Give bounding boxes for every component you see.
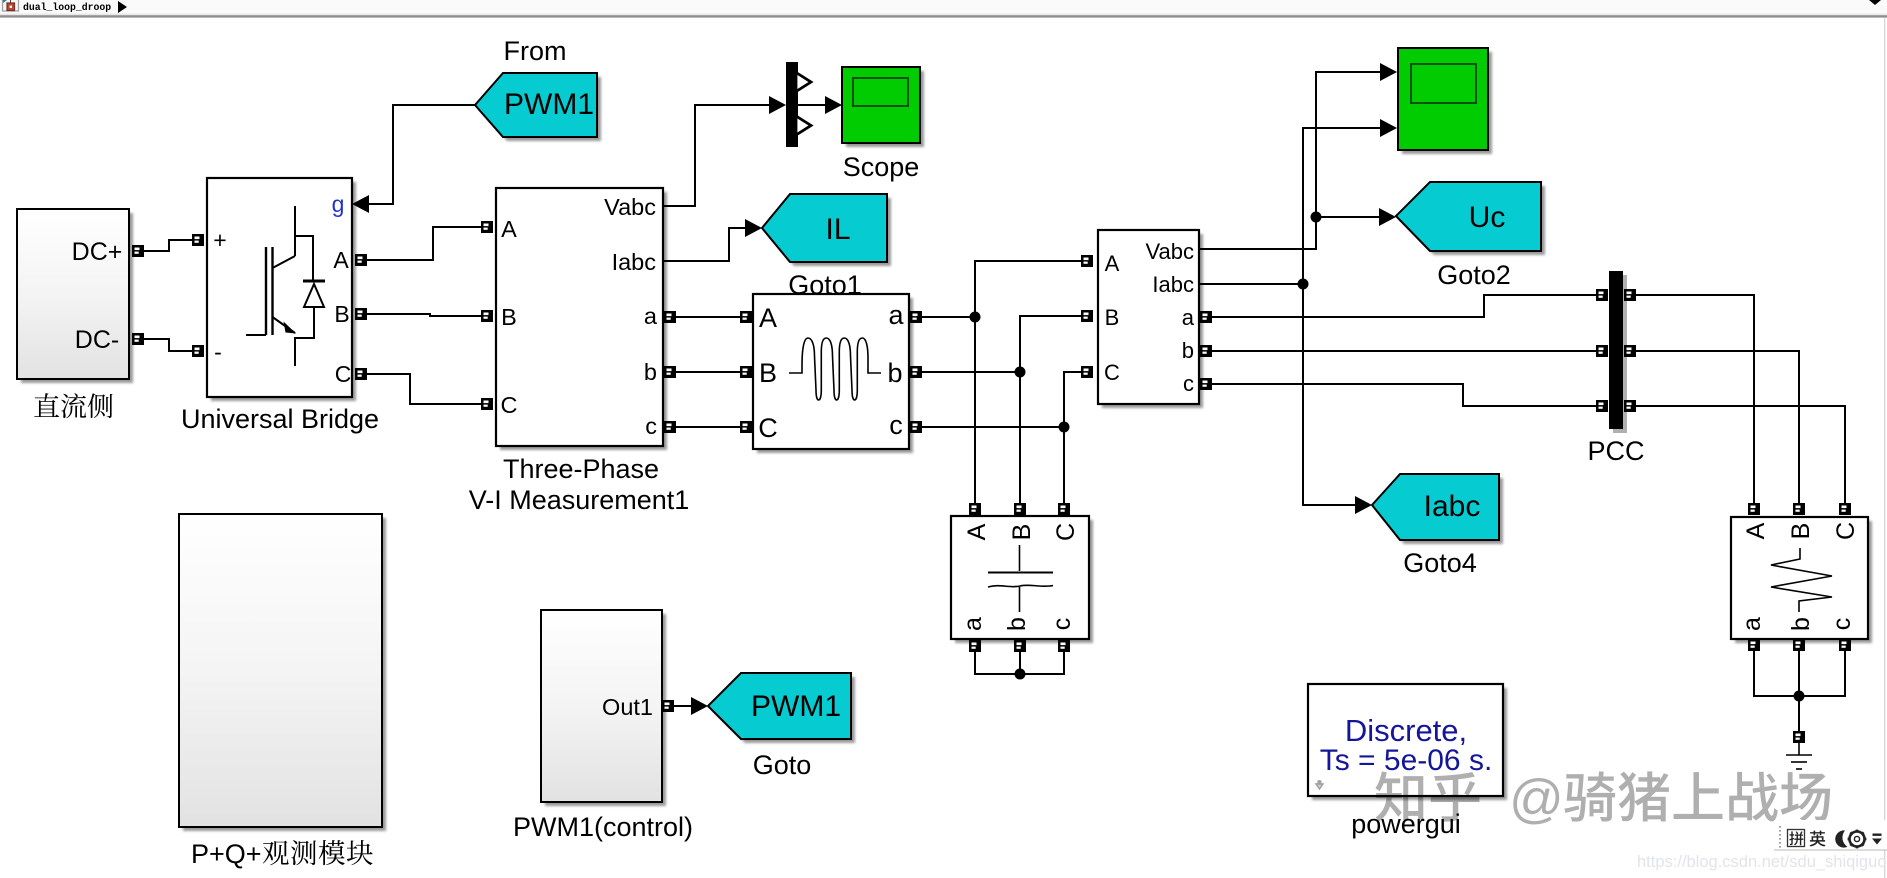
- svg-text:Iabc: Iabc: [1424, 490, 1481, 523]
- wire DC- to bridge -: [144, 339, 192, 351]
- junction Iabc: [1298, 279, 1309, 290]
- wire vi2 c to PCC: [1212, 384, 1596, 406]
- powergui corner arrow: [1316, 781, 1323, 789]
- block Three-Phase V-I Measurement (right): [1102, 234, 1203, 408]
- svg-text:Three-Phase: Three-Phase: [503, 454, 659, 484]
- wire vi2 Iabc: [1199, 283, 1303, 285]
- svg-text:C: C: [758, 413, 778, 443]
- wire phase b trunk: [922, 372, 1020, 503]
- ground symbol: [1786, 743, 1812, 769]
- port vi1 a: [664, 311, 676, 323]
- svg-text:a: a: [959, 617, 987, 631]
- svg-text:A: A: [1742, 522, 1770, 539]
- svg-text:+: +: [213, 227, 226, 253]
- svg-text:dual_loop_droop: dual_loop_droop: [23, 2, 111, 13]
- port inductor B: [740, 366, 752, 378]
- port vi2 C: [1081, 366, 1093, 378]
- demux unconnected out1: [796, 73, 811, 92]
- label 直流侧: [34, 393, 59, 417]
- svg-text:a: a: [1182, 305, 1195, 330]
- svg-text:b: b: [1787, 617, 1815, 631]
- port bridge C: [355, 368, 367, 380]
- svg-text:Universal Bridge: Universal Bridge: [181, 404, 379, 434]
- port vi2 a: [1200, 311, 1212, 323]
- svg-text:Goto4: Goto4: [1403, 548, 1477, 578]
- svg-text:Scope: Scope: [843, 152, 920, 182]
- svg-text:B: B: [501, 304, 517, 330]
- port inductor b: [910, 366, 922, 378]
- svg-text:IL: IL: [825, 213, 850, 246]
- port pcc left 2: [1596, 345, 1608, 357]
- svg-text:A: A: [333, 247, 349, 273]
- junction phase b: [1015, 367, 1026, 378]
- wire bridge C to vi1 C: [367, 374, 483, 404]
- port cap B: [1014, 503, 1026, 515]
- svg-text:Iabc: Iabc: [612, 249, 657, 275]
- wire phase c branch to vi2 C: [1064, 372, 1081, 427]
- wire vi2 Vabc up to scope2: [1199, 72, 1381, 249]
- port inductor C: [740, 421, 752, 433]
- wire vi1 c to inductor C: [676, 426, 740, 428]
- svg-text:PWM1(control): PWM1(control): [513, 812, 693, 842]
- port Out1: [662, 700, 674, 712]
- wire pcc2 to resistor B: [1636, 351, 1799, 503]
- IME toolbar: [1774, 820, 1887, 850]
- svg-text:A: A: [1105, 251, 1120, 276]
- resistor zigzag icon: [1771, 548, 1832, 612]
- svg-text:PWM1: PWM1: [504, 88, 594, 121]
- svg-text:c: c: [1183, 371, 1194, 396]
- block Scope1 (top right): [1402, 52, 1492, 154]
- top-right pin icon: [1869, 0, 1881, 5]
- svg-text:a: a: [1738, 617, 1766, 631]
- svg-text:C: C: [1052, 523, 1080, 541]
- canvas right edge: [1884, 18, 1885, 878]
- Goto tag PWM1: [712, 677, 855, 743]
- svg-text:Iabc: Iabc: [1152, 272, 1194, 297]
- port bridge A: [355, 254, 367, 266]
- wire pcc3 to resistor C: [1636, 406, 1845, 503]
- wire demux to Scope: [798, 104, 826, 106]
- port cap A: [969, 503, 981, 515]
- svg-text:Discrete,: Discrete,: [1345, 713, 1467, 748]
- wire From PWM1 to bridge g: [368, 105, 475, 204]
- svg-text:Goto: Goto: [753, 750, 812, 780]
- svg-text:B: B: [1787, 523, 1815, 540]
- svg-text:V-I Measurement1: V-I Measurement1: [469, 485, 690, 515]
- block Universal Bridge: [211, 182, 356, 401]
- port inductor a: [910, 311, 922, 323]
- svg-text:c: c: [1048, 618, 1076, 631]
- svg-text:g: g: [332, 191, 345, 217]
- block three-phase series inductor: [757, 298, 913, 453]
- wire phase a branch to vi2 A: [975, 261, 1081, 317]
- port vi1 A: [481, 221, 493, 233]
- svg-text:-: -: [214, 339, 222, 365]
- port bridge B: [355, 308, 367, 320]
- wire bridge B to vi1 B: [367, 314, 483, 316]
- block three-phase capacitor: [955, 520, 1093, 643]
- model icon: [3, 0, 19, 11]
- watermark 知乎 @骑猪上战场: [1375, 769, 1830, 829]
- port res a: [1748, 639, 1760, 651]
- port vi1 C: [481, 398, 493, 410]
- junction cap neutral: [1015, 669, 1026, 680]
- port DC-: [132, 333, 144, 345]
- port res b: [1793, 639, 1805, 651]
- svg-text:a: a: [888, 300, 904, 330]
- wire Iabc up to scope2 in2: [1303, 128, 1381, 284]
- wire Out1 to Goto: [674, 705, 692, 707]
- inductor coil icon: [789, 338, 881, 400]
- demux bar: [786, 62, 798, 147]
- svg-text:a: a: [644, 303, 658, 329]
- demux unconnected out3: [796, 116, 811, 135]
- wire vi2 a to PCC: [1212, 295, 1596, 317]
- wire Iabc down to Goto4: [1303, 284, 1356, 505]
- Goto tag Uc: [1400, 186, 1545, 255]
- port res A: [1748, 503, 1760, 515]
- port vi2 c: [1200, 378, 1212, 390]
- svg-text:B: B: [334, 301, 349, 327]
- port cap a: [969, 640, 981, 652]
- wire cap neutral: [975, 652, 1064, 674]
- port inductor c: [910, 421, 922, 433]
- svg-text:Out1: Out1: [602, 694, 653, 720]
- svg-text:P+Q+: P+Q+: [191, 839, 262, 869]
- junction phase c: [1059, 422, 1070, 433]
- Goto tag Iabc: [1376, 478, 1503, 544]
- wire vi1 a to inductor A: [676, 316, 740, 318]
- wire vi1 Vabc to demux: [662, 105, 770, 206]
- port DC+: [132, 245, 144, 257]
- svg-text:B: B: [1008, 524, 1036, 541]
- port res c: [1839, 639, 1851, 651]
- port vi2 b: [1200, 345, 1212, 357]
- svg-text:b: b: [644, 359, 657, 385]
- svg-text:Vabc: Vabc: [1145, 239, 1194, 264]
- svg-text:Ts = 5e-06 s.: Ts = 5e-06 s.: [1320, 744, 1493, 777]
- port vi2 B: [1081, 310, 1093, 322]
- port vi2 A: [1081, 255, 1093, 267]
- svg-text:DC+: DC+: [72, 238, 123, 266]
- port vi1 b: [664, 366, 676, 378]
- IME moon icon: [1835, 830, 1847, 847]
- arrowhead into g: [352, 195, 369, 213]
- IME more arrow: [1873, 834, 1882, 836]
- wire res neutral: [1754, 651, 1845, 696]
- port inductor A: [740, 311, 752, 323]
- svg-text:A: A: [759, 303, 777, 333]
- svg-text:Goto2: Goto2: [1437, 260, 1511, 290]
- port pcc left 1: [1596, 289, 1608, 301]
- breadcrumb bar: [0, 0, 1887, 15]
- svg-text:C: C: [1832, 522, 1860, 540]
- wire phase a trunk: [922, 317, 975, 503]
- port pcc right 1: [1624, 289, 1636, 301]
- port ground: [1793, 731, 1805, 743]
- svg-text:https://blog.csdn.net/sdu_shiq: https://blog.csdn.net/sdu_shiqiguo: [1637, 853, 1887, 871]
- svg-text:C: C: [501, 392, 518, 418]
- block Three-Phase V-I Measurement1: [500, 192, 667, 450]
- junction phase a: [970, 312, 981, 323]
- block P+Q observer: [183, 518, 386, 831]
- port res B: [1793, 503, 1805, 515]
- svg-text:c: c: [889, 410, 903, 440]
- port pcc right 3: [1624, 400, 1636, 412]
- Goto tag IL: [766, 198, 891, 266]
- port vi1 B: [481, 310, 493, 322]
- block DC source 直流侧: [21, 213, 133, 383]
- port cap c: [1058, 640, 1070, 652]
- wire phase c trunk: [922, 427, 1064, 503]
- wire branch to Uc: [1316, 216, 1380, 218]
- IGBT icon: [246, 206, 325, 366]
- svg-text:c: c: [1828, 618, 1856, 631]
- svg-text:C: C: [335, 361, 352, 387]
- block PWM1(control): [545, 614, 666, 806]
- svg-text:B: B: [759, 358, 777, 388]
- junction res neutral: [1794, 691, 1805, 702]
- svg-text:c: c: [645, 413, 657, 439]
- svg-text:b: b: [1003, 617, 1031, 631]
- arrowhead into demux: [769, 96, 786, 114]
- wire pcc1 to resistor A: [1636, 295, 1754, 503]
- port res C: [1839, 503, 1851, 515]
- From tag PWM1: [479, 77, 601, 141]
- block three-phase resistor load: [1735, 521, 1872, 643]
- wire bridge A to vi1 A: [367, 227, 483, 260]
- port bridge -: [192, 345, 204, 357]
- svg-text:A: A: [501, 216, 517, 242]
- svg-text:DC-: DC-: [75, 326, 119, 354]
- svg-text:b: b: [887, 358, 902, 388]
- svg-text:B: B: [1105, 305, 1120, 330]
- svg-text:PCC: PCC: [1587, 436, 1644, 466]
- port pcc left 3: [1596, 400, 1608, 412]
- port cap C: [1058, 503, 1070, 515]
- junction Vabc/Uc: [1311, 212, 1322, 223]
- svg-text:Uc: Uc: [1469, 201, 1506, 234]
- wire vi2 b to PCC: [1212, 350, 1596, 352]
- block powergui: [1312, 688, 1507, 800]
- svg-text:b: b: [1182, 338, 1194, 363]
- wire vi1 Iabc to IL: [662, 228, 748, 261]
- port vi1 c: [664, 421, 676, 433]
- svg-text:A: A: [963, 523, 991, 540]
- breadcrumb arrow: [118, 1, 127, 13]
- IME gear icon: [1848, 830, 1867, 849]
- wire DC+ to bridge +: [144, 240, 192, 251]
- port cap b: [1014, 640, 1026, 652]
- PCC bus bar: [1613, 275, 1627, 433]
- svg-text:C: C: [1104, 360, 1120, 385]
- svg-text:@: @: [1509, 769, 1564, 829]
- wire phase b branch to vi2 B: [1020, 316, 1081, 372]
- svg-text:PWM1: PWM1: [751, 690, 841, 723]
- svg-text:Vabc: Vabc: [604, 194, 656, 220]
- wire vi1 b to inductor B: [676, 371, 740, 373]
- port pcc right 2: [1624, 345, 1636, 357]
- capacitor icon: [988, 545, 1053, 612]
- svg-text:From: From: [504, 36, 567, 66]
- port bridge +: [192, 234, 204, 246]
- block Scope: [846, 71, 924, 147]
